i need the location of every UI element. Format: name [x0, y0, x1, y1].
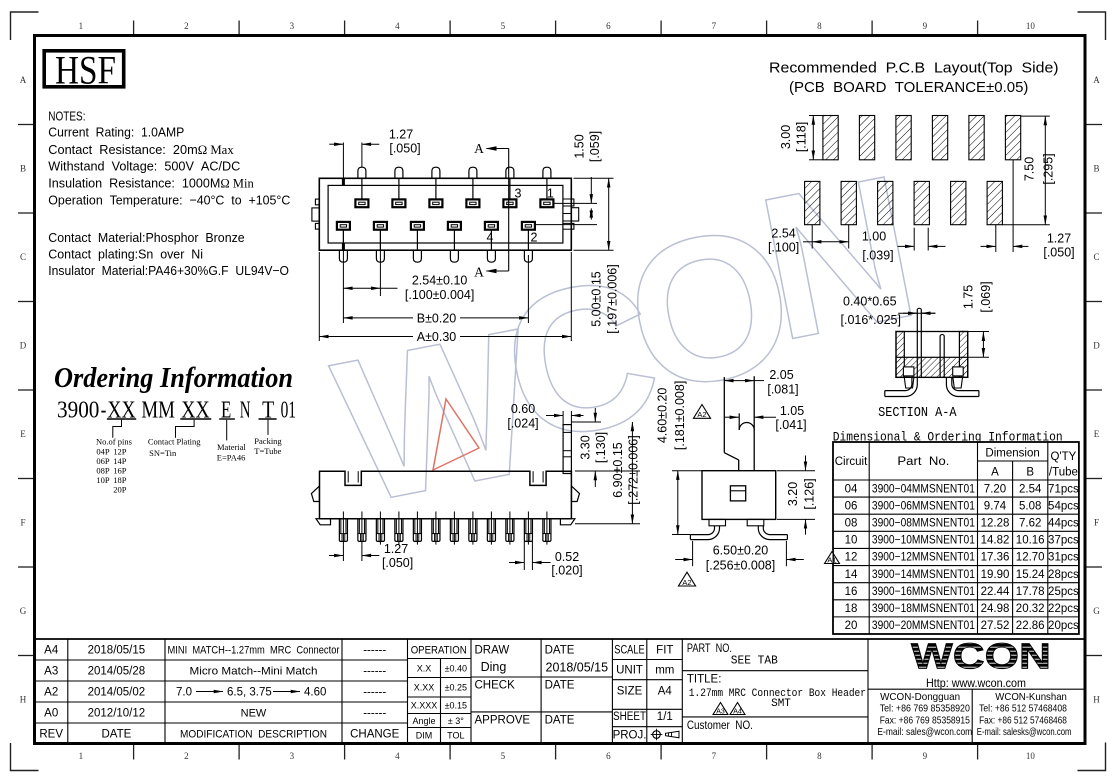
- svg-text:2.54: 2.54: [771, 226, 795, 240]
- svg-text:9: 9: [923, 21, 928, 31]
- svg-text:H: H: [20, 695, 27, 705]
- svg-text:Contact Material:Phosphor Br: Contact Material:Phosphor Bronze: [48, 230, 244, 245]
- svg-text:N: N: [240, 398, 251, 424]
- svg-text:B: B: [20, 164, 26, 174]
- svg-text:Customer NO.: Customer NO.: [687, 720, 753, 732]
- svg-text:08P: 08P: [96, 466, 110, 476]
- svg-text:[.050]: [.050]: [382, 556, 413, 570]
- svg-text:A±0.30: A±0.30: [417, 330, 457, 344]
- svg-text:28pcs: 28pcs: [1048, 569, 1079, 581]
- svg-text:DIM: DIM: [416, 731, 433, 741]
- svg-text:[.181±0.008]: [.181±0.008]: [673, 381, 687, 450]
- svg-text:2.05: 2.05: [769, 368, 793, 382]
- svg-text:FIT: FIT: [656, 645, 673, 657]
- svg-text:Contact Resistance: 20mΩ Max: Contact Resistance: 20mΩ Max: [48, 142, 234, 157]
- svg-text:SEE TAB: SEE TAB: [731, 654, 778, 668]
- svg-text:UNIT: UNIT: [616, 664, 643, 676]
- side view inner square: [730, 486, 745, 501]
- svg-text:37pcs: 37pcs: [1048, 535, 1079, 547]
- svg-text:DRAW: DRAW: [475, 645, 510, 657]
- svg-text:3900: 3900: [57, 398, 99, 424]
- svg-text:NEW: NEW: [241, 708, 267, 720]
- svg-text:22pcs: 22pcs: [1048, 603, 1079, 615]
- svg-text:------: ------: [363, 687, 386, 699]
- svg-text:9.74: 9.74: [984, 500, 1007, 512]
- svg-text:A3: A3: [716, 708, 725, 715]
- side view dim 4.60: [656, 381, 703, 535]
- svg-text:3900−18MMSNENT01: 3900−18MMSNENT01: [872, 603, 975, 615]
- zone tick marks and numbers bottom edge: [79, 745, 1036, 762]
- svg-text:A2: A2: [44, 687, 58, 699]
- top view contact pads row 1: [355, 199, 553, 207]
- contact info dongguan: [877, 691, 972, 738]
- svg-text:------: ------: [363, 708, 386, 720]
- svg-text:3900−08MMSNENT01: 3900−08MMSNENT01: [872, 518, 975, 530]
- svg-text:14P: 14P: [113, 456, 127, 466]
- PCB layout hatched pads row 2: [805, 181, 1003, 224]
- section A-A left wall hatched: [896, 332, 904, 378]
- revision table texts: [39, 645, 399, 741]
- svg-text:PROJ.: PROJ.: [613, 729, 647, 741]
- svg-text:F: F: [1094, 518, 1099, 528]
- svg-text:2: 2: [531, 231, 538, 245]
- section A-A dim 1.75: [962, 281, 994, 357]
- svg-text:25pcs: 25pcs: [1048, 586, 1079, 598]
- svg-text:1/1: 1/1: [657, 711, 673, 723]
- front view left wedge tab: [311, 486, 319, 501]
- svg-text:HSF: HSF: [55, 48, 116, 93]
- svg-text:E-mail: salesks@wcon.com: E-mail: salesks@wcon.com: [977, 726, 1072, 738]
- svg-text:27.52: 27.52: [981, 620, 1010, 632]
- svg-text:Part No.: Part No.: [897, 456, 949, 468]
- section cut line A-A: [474, 141, 509, 280]
- svg-text:B: B: [1093, 164, 1099, 174]
- svg-text:[.050]: [.050]: [1043, 246, 1074, 260]
- front view right wedge tab: [572, 486, 580, 501]
- svg-text:E: E: [1094, 429, 1100, 439]
- svg-text:1.27: 1.27: [389, 128, 413, 142]
- svg-text:±0.15: ±0.15: [445, 701, 467, 711]
- svg-text:22.44: 22.44: [981, 586, 1010, 598]
- side view revision triangle A2 lower: [678, 572, 695, 587]
- svg-text:16: 16: [845, 586, 858, 598]
- svg-text:H: H: [1093, 695, 1100, 705]
- svg-text:mm: mm: [655, 664, 674, 676]
- svg-text:3.20: 3.20: [786, 482, 800, 506]
- svg-text:SN=Tin: SN=Tin: [149, 448, 177, 458]
- svg-text:04P: 04P: [96, 447, 110, 457]
- svg-text:[.069]: [.069]: [979, 281, 993, 312]
- top view extension line band crossings: [342, 178, 345, 250]
- svg-text:18P: 18P: [113, 475, 127, 485]
- svg-text:G: G: [1093, 606, 1100, 616]
- svg-text:------: ------: [363, 666, 386, 678]
- svg-text:[.081]: [.081]: [767, 383, 798, 397]
- svg-text:[.020]: [.020]: [551, 564, 582, 578]
- svg-text:0.52: 0.52: [555, 550, 579, 564]
- page border corner mark top-right: [1078, 12, 1106, 40]
- svg-text:A0: A0: [44, 708, 58, 720]
- svg-text:3900−04MMSNENT01: 3900−04MMSNENT01: [872, 483, 975, 495]
- svg-text:2018/05/15: 2018/05/15: [88, 645, 146, 657]
- svg-text:Http: www.wcon.com: Http: www.wcon.com: [926, 676, 1026, 690]
- svg-text:Material: Material: [217, 442, 246, 452]
- svg-text:Insulator Material:PA46+30%G.: Insulator Material:PA46+30%G.F UL94V−O: [48, 263, 289, 278]
- svg-text:7.20: 7.20: [984, 483, 1006, 495]
- svg-text:DATE: DATE: [545, 680, 575, 692]
- part no / title texts: [687, 643, 866, 732]
- svg-text:2014/05/28: 2014/05/28: [88, 666, 146, 678]
- svg-text:------: ------: [363, 645, 386, 657]
- svg-text:3: 3: [290, 751, 295, 761]
- svg-text:[.039]: [.039]: [862, 249, 893, 263]
- svg-text:[.295]: [.295]: [1042, 153, 1056, 184]
- title revision triangles: [713, 703, 745, 716]
- section A-A right pin: [940, 334, 944, 377]
- svg-text:Dimension: Dimension: [985, 448, 1039, 460]
- svg-text:B±0.20: B±0.20: [417, 311, 457, 325]
- svg-text:X.X: X.X: [417, 664, 432, 674]
- dimensional table revision triangle row 12: [824, 551, 840, 565]
- page border corner mark bottom-right: [1078, 743, 1106, 771]
- svg-text:/Tube: /Tube: [1049, 467, 1078, 479]
- front view mating tab: [563, 425, 571, 474]
- tolerance block texts: [411, 645, 467, 741]
- svg-text:E-mail: sales@wcon.com: E-mail: sales@wcon.com: [877, 726, 972, 738]
- svg-text:C: C: [1093, 252, 1099, 262]
- svg-text:Tel: +86 769 85358920: Tel: +86 769 85358920: [880, 703, 970, 715]
- svg-text:5: 5: [501, 21, 506, 31]
- svg-text:A4: A4: [44, 645, 59, 657]
- svg-text:Current Rating: 1.0AMP: Current Rating: 1.0AMP: [48, 125, 184, 140]
- svg-text:CHECK: CHECK: [475, 680, 516, 692]
- svg-text:1.05: 1.05: [780, 404, 804, 418]
- svg-text:10: 10: [845, 535, 858, 547]
- top view pins top row: [358, 167, 551, 199]
- svg-text:71pcs: 71pcs: [1048, 483, 1079, 495]
- svg-text:±0.25: ±0.25: [445, 683, 467, 693]
- svg-text:Insulation Resistance: 1000M: Insulation Resistance: 1000MΩ Min: [48, 176, 254, 191]
- svg-text:[.050]: [.050]: [389, 142, 420, 156]
- svg-text:2012/10/12: 2012/10/12: [88, 708, 146, 720]
- side view dim 2.05: [724, 368, 798, 397]
- svg-text:20P: 20P: [113, 485, 127, 495]
- svg-text:6: 6: [606, 21, 611, 31]
- svg-text:0.40*0.65: 0.40*0.65: [843, 295, 897, 309]
- scale/unit/size/sheet/proj texts: [613, 645, 675, 742]
- zone tick marks and letters left edge: [18, 75, 34, 705]
- svg-text:1.00: 1.00: [862, 230, 886, 244]
- front view left bottom flange: [316, 519, 331, 525]
- svg-text:1: 1: [79, 751, 84, 761]
- svg-text:20: 20: [845, 620, 858, 632]
- svg-text:6.90±0.15: 6.90±0.15: [611, 442, 625, 498]
- svg-text:08: 08: [845, 518, 858, 530]
- svg-text:7.62: 7.62: [1019, 518, 1041, 530]
- side view revision triangle A2 upper: [693, 405, 710, 420]
- ordering part number line: [57, 398, 296, 424]
- PCB layout hatched pads row 1: [823, 116, 1021, 160]
- front view dim 0.60: [507, 402, 583, 431]
- projection symbol: [651, 729, 679, 741]
- svg-text:10P: 10P: [96, 475, 110, 485]
- svg-text:01: 01: [281, 398, 296, 424]
- PCB dim 1.27: [981, 160, 1075, 260]
- section A-A left pin: [917, 308, 921, 377]
- svg-text:A: A: [474, 265, 484, 280]
- top view dim A: [319, 252, 571, 344]
- svg-text:[.059]: [.059]: [588, 131, 602, 162]
- side view blade: [724, 376, 754, 471]
- title block grid: [35, 639, 1086, 744]
- svg-text:Ding: Ding: [481, 660, 507, 674]
- svg-text:PART NO.: PART NO.: [687, 643, 732, 655]
- svg-text:CHANGE: CHANGE: [350, 729, 400, 741]
- svg-text:DATE: DATE: [101, 729, 131, 741]
- svg-text:[.126]: [.126]: [803, 478, 817, 509]
- top view dim B: [343, 255, 528, 325]
- svg-text:4: 4: [487, 231, 494, 245]
- svg-text:31pcs: 31pcs: [1048, 552, 1079, 564]
- svg-text:14: 14: [845, 569, 858, 581]
- svg-text:X.XXX: X.XXX: [411, 701, 438, 711]
- svg-text:19.90: 19.90: [981, 569, 1010, 581]
- svg-text:A3: A3: [44, 666, 58, 678]
- svg-text:DATE: DATE: [545, 645, 575, 657]
- svg-text:5.08: 5.08: [1019, 500, 1041, 512]
- top view left side tabs: [312, 199, 319, 229]
- ordering callout no. of pins: [96, 420, 132, 495]
- svg-text:A: A: [1093, 75, 1100, 85]
- section A-A dim 0.40*0.65: [841, 295, 936, 328]
- svg-text:A: A: [991, 467, 999, 479]
- top view pins bottom row: [339, 230, 532, 263]
- svg-text:[.024]: [.024]: [507, 417, 538, 431]
- svg-text:Tel: +86 512 57468408: Tel: +86 512 57468408: [979, 703, 1067, 715]
- svg-text:DATE: DATE: [545, 715, 575, 727]
- svg-text:-: -: [101, 398, 107, 424]
- svg-text:Contact Plating: Contact Plating: [148, 436, 201, 446]
- svg-text:Angle: Angle: [412, 716, 435, 726]
- svg-text:C: C: [20, 252, 26, 262]
- svg-text:04: 04: [845, 483, 858, 495]
- draw/check/approve texts: [475, 645, 609, 727]
- svg-text:24.98: 24.98: [981, 603, 1010, 615]
- svg-text:1.50: 1.50: [573, 134, 587, 158]
- svg-text:3900−10MMSNENT01: 3900−10MMSNENT01: [872, 535, 975, 547]
- svg-text:17.78: 17.78: [1016, 586, 1045, 598]
- HSF logo: [44, 48, 124, 93]
- svg-text:06P: 06P: [96, 456, 110, 466]
- svg-text:3900−12MMSNENT01: 3900−12MMSNENT01: [872, 552, 975, 564]
- svg-text:4: 4: [395, 21, 400, 31]
- section A-A body outline: [896, 332, 968, 378]
- WCON logo: [911, 636, 1051, 691]
- front view right bottom flange: [560, 519, 575, 525]
- svg-text:A: A: [474, 141, 484, 156]
- svg-text:9: 9: [923, 751, 928, 761]
- svg-text:15.24: 15.24: [1016, 569, 1045, 581]
- svg-text:Fax: +86 512 57468468: Fax: +86 512 57468468: [979, 714, 1067, 726]
- side view body: [702, 471, 776, 520]
- PCB dim 1.00: [862, 228, 946, 263]
- svg-text:TITLE:: TITLE:: [687, 673, 722, 685]
- svg-text:4: 4: [395, 751, 400, 761]
- svg-text:10: 10: [1026, 751, 1036, 761]
- svg-text:SHEET: SHEET: [613, 711, 646, 723]
- svg-text:[.197±0.006]: [.197±0.006]: [606, 264, 620, 333]
- svg-text:12P: 12P: [113, 447, 127, 457]
- contact info kunshan: [977, 691, 1072, 738]
- top view pin number labels: [487, 187, 554, 245]
- ordering callout packing: [254, 420, 282, 456]
- section A-A feet tabs: [904, 377, 962, 388]
- top view dim 2.54: [343, 231, 474, 323]
- svg-text:A4: A4: [658, 686, 673, 698]
- top view dim 1.50: [535, 131, 602, 225]
- svg-text:5: 5: [501, 751, 506, 761]
- svg-text:3: 3: [515, 187, 522, 201]
- svg-text:D: D: [20, 341, 27, 351]
- svg-text:Micro Match--Mini Match: Micro Match--Mini Match: [190, 666, 318, 678]
- svg-text:± 3°: ± 3°: [448, 716, 464, 726]
- side view dim 3.20: [777, 456, 817, 535]
- front view body outline: [320, 471, 572, 519]
- svg-text:No.of pins: No.of pins: [96, 436, 132, 446]
- svg-text:Circuit: Circuit: [835, 456, 868, 468]
- svg-text:12: 12: [845, 552, 858, 564]
- svg-text:20.32: 20.32: [1016, 603, 1045, 615]
- page border corner mark top-left: [11, 12, 39, 40]
- top view contact pads row 2: [337, 222, 535, 230]
- svg-text:[.016*.025]: [.016*.025]: [841, 313, 901, 327]
- svg-text:3.30: 3.30: [579, 435, 593, 459]
- svg-text:SIZE: SIZE: [617, 686, 643, 698]
- svg-text:X.XX: X.XX: [414, 683, 435, 693]
- svg-text:E=PA46: E=PA46: [217, 453, 246, 463]
- svg-text:6: 6: [606, 751, 611, 761]
- svg-text:3900−16MMSNENT01: 3900−16MMSNENT01: [872, 586, 975, 598]
- svg-text:Operation Temperature: −40°C: Operation Temperature: −40°C to +105°C: [48, 193, 290, 208]
- section A-A right wall hatched: [959, 332, 967, 378]
- svg-text:06: 06: [845, 500, 858, 512]
- svg-text:G: G: [20, 606, 27, 616]
- side view right gull wing: [758, 526, 787, 540]
- ordering callout contact plating: [148, 420, 201, 458]
- svg-text:2018/05/15: 2018/05/15: [546, 661, 609, 675]
- svg-text:Ordering Information: Ordering Information: [54, 363, 293, 394]
- watermark WCON logo outline: [320, 131, 933, 547]
- svg-text:E: E: [20, 429, 26, 439]
- front view pins x12: [339, 512, 551, 545]
- svg-text:[.130]: [.130]: [594, 432, 608, 463]
- svg-text:10: 10: [1026, 21, 1036, 31]
- side view left gull wing: [690, 526, 719, 540]
- svg-text:F: F: [20, 518, 25, 528]
- svg-text:16P: 16P: [113, 466, 127, 476]
- svg-text:4.60: 4.60: [304, 687, 326, 699]
- zone tick marks and numbers top edge: [79, 21, 1036, 36]
- svg-text:[.118]: [.118]: [795, 122, 809, 152]
- svg-text:A2: A2: [697, 410, 706, 419]
- section A-A bottom blocks: [903, 367, 963, 376]
- svg-text:[.272±0.006]: [.272±0.006]: [627, 435, 641, 504]
- svg-text:WCON-Dongguan: WCON-Dongguan: [880, 691, 960, 703]
- svg-text:MINI MATCH--1.27mm MRC Conn: MINI MATCH--1.27mm MRC Connector: [168, 645, 340, 657]
- svg-text:7.0: 7.0: [176, 687, 192, 699]
- top view right side tabs: [563, 199, 579, 229]
- PCB dim 7.50: [1002, 116, 1055, 225]
- svg-text:2.54: 2.54: [1019, 483, 1042, 495]
- notes text block: [48, 108, 290, 278]
- svg-text:±0.40: ±0.40: [445, 664, 467, 674]
- svg-text:Recommended P.C.B Layout(Top: Recommended P.C.B Layout(Top Side): [769, 61, 1059, 77]
- svg-text:TOL: TOL: [447, 731, 464, 741]
- svg-text:SECTION A-A: SECTION A-A: [878, 406, 957, 421]
- top view inner body: [328, 185, 563, 243]
- top view outer body: [319, 178, 571, 250]
- svg-text:1: 1: [547, 187, 554, 201]
- svg-text:7: 7: [712, 751, 717, 761]
- svg-text:3900−06MMSNENT01: 3900−06MMSNENT01: [872, 500, 975, 512]
- ordering callout material: [217, 420, 247, 463]
- svg-text:Q'TY: Q'TY: [1050, 451, 1076, 463]
- section A-A right gull wing: [946, 377, 979, 396]
- svg-text:17.36: 17.36: [981, 552, 1010, 564]
- top view dim 1.27: [329, 128, 420, 179]
- svg-text:20pcs: 20pcs: [1048, 620, 1079, 632]
- svg-text:4.60±0.20: 4.60±0.20: [656, 388, 670, 444]
- front view dim 3.30: [571, 408, 640, 487]
- watermark red triangle: [433, 399, 479, 470]
- front view dim 6.90: [575, 422, 641, 524]
- svg-text:3900−14MMSNENT01: 3900−14MMSNENT01: [872, 569, 975, 581]
- svg-text:[.041]: [.041]: [775, 418, 806, 432]
- section A-A bottom band hatched: [896, 357, 968, 377]
- svg-text:MM: MM: [141, 398, 175, 424]
- side view dim 1.05: [724, 404, 806, 432]
- svg-text:WCON-Kunshan: WCON-Kunshan: [995, 691, 1067, 703]
- svg-text:7.50: 7.50: [1023, 157, 1037, 181]
- svg-text:NOTES:: NOTES:: [48, 108, 85, 123]
- svg-text:2.54±0.10: 2.54±0.10: [412, 274, 468, 288]
- svg-text:B: B: [1026, 467, 1034, 479]
- svg-text:T=Tube: T=Tube: [254, 446, 281, 456]
- svg-text:REV: REV: [39, 729, 63, 741]
- svg-text:Packing: Packing: [254, 436, 282, 446]
- svg-text:12.70: 12.70: [1016, 552, 1045, 564]
- svg-text:1.75: 1.75: [962, 285, 976, 309]
- svg-text:A2: A2: [682, 578, 691, 587]
- svg-text:5.00±0.15: 5.00±0.15: [590, 271, 604, 327]
- svg-text:(PCB BOARD TOLERANCE±0.05): (PCB BOARD TOLERANCE±0.05): [789, 80, 1028, 96]
- svg-text:Contact plating:Sn over Ni: Contact plating:Sn over Ni: [48, 246, 203, 261]
- svg-text:2: 2: [184, 21, 189, 31]
- svg-text:44pcs: 44pcs: [1048, 518, 1079, 530]
- zone tick marks and letters right edge: [1086, 75, 1102, 705]
- svg-text:18: 18: [845, 603, 858, 615]
- svg-text:3900−20MMSNENT01: 3900−20MMSNENT01: [872, 620, 975, 632]
- svg-text:1.27: 1.27: [384, 542, 408, 556]
- svg-text:8: 8: [817, 21, 822, 31]
- svg-text:22.86: 22.86: [1016, 620, 1045, 632]
- svg-text:12.28: 12.28: [981, 518, 1010, 530]
- svg-text:10.16: 10.16: [1016, 535, 1045, 547]
- svg-text:1.27: 1.27: [1047, 232, 1071, 246]
- svg-text:A: A: [20, 75, 27, 85]
- section A-A left gull wing: [885, 377, 918, 396]
- svg-text:3.00: 3.00: [779, 125, 793, 149]
